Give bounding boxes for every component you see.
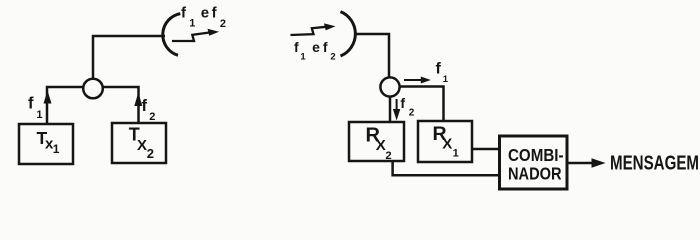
svg-text:2: 2 xyxy=(220,18,226,30)
svg-text:1: 1 xyxy=(443,74,449,85)
svg-text:NADOR: NADOR xyxy=(508,164,562,184)
svg-text:2: 2 xyxy=(385,150,391,162)
svg-text:f: f xyxy=(323,39,328,55)
svg-text:f: f xyxy=(142,97,148,115)
svg-text:2: 2 xyxy=(330,51,335,62)
svg-text:MENSAGEM: MENSAGEM xyxy=(610,152,699,175)
svg-text:1: 1 xyxy=(189,18,195,30)
svg-text:f: f xyxy=(212,4,218,21)
svg-text:X: X xyxy=(376,137,386,154)
svg-text:f: f xyxy=(28,95,34,113)
svg-text:2: 2 xyxy=(409,107,415,118)
svg-text:1: 1 xyxy=(36,109,42,121)
svg-text:2: 2 xyxy=(147,146,154,161)
svg-text:X: X xyxy=(442,135,452,152)
svg-text:f: f xyxy=(181,4,187,21)
svg-text:COMBI-: COMBI- xyxy=(508,145,564,165)
svg-text:f: f xyxy=(436,61,442,78)
svg-text:2: 2 xyxy=(149,111,155,123)
svg-text:f: f xyxy=(294,39,299,55)
svg-text:1: 1 xyxy=(300,51,306,62)
svg-text:e: e xyxy=(312,39,320,55)
svg-text:1: 1 xyxy=(453,147,459,159)
svg-text:f: f xyxy=(400,95,405,111)
svg-text:1: 1 xyxy=(53,142,60,156)
svg-text:X: X xyxy=(137,137,147,154)
svg-text:e: e xyxy=(201,4,209,21)
